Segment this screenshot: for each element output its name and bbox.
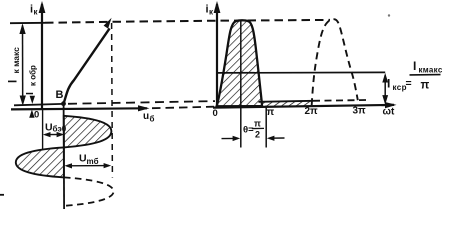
- U_mb dimension double arrow: [64, 163, 111, 169]
- second pulse (dashed): [312, 19, 358, 105]
- svg-text:кмакс: кмакс: [419, 66, 443, 75]
- point B dot: [61, 101, 66, 106]
- strip top edge line: [259, 101, 314, 102]
- svg-text:U: U: [45, 122, 53, 134]
- svg-text:π: π: [254, 119, 261, 129]
- pi tick line: [265, 106, 267, 148]
- svg-text:0: 0: [34, 110, 39, 121]
- formula I_ksr = I_kmaks / pi: [387, 59, 443, 92]
- svg-text:u: u: [143, 111, 149, 122]
- svg-text:=: =: [406, 78, 412, 90]
- svg-text:mб: mб: [87, 157, 99, 166]
- svg-text:I: I: [413, 59, 416, 73]
- top Ik_max level line (dashed, spans both graphs): [45, 20, 330, 23]
- svg-text:к: к: [34, 8, 39, 17]
- label U_be0: [45, 122, 67, 134]
- svg-text:3π: 3π: [353, 106, 367, 117]
- svg-text:I: I: [387, 77, 390, 91]
- sine half-wave 3 (right, dashed): [64, 177, 114, 205]
- Ik_max dimension arrow: [19, 23, 26, 105]
- vertical dashed line at u = Ubex0+Umb (through char. peak): [111, 23, 114, 178]
- sine half-wave 1 (right, hatched): [64, 116, 112, 148]
- collector current pulse (solid, hatched): [217, 20, 262, 106]
- svg-text:B: B: [56, 89, 64, 101]
- label i_k (right): [206, 4, 215, 17]
- svg-text:I: I: [8, 80, 20, 83]
- theta dimension arrows: [222, 136, 285, 142]
- svg-text:2: 2: [255, 130, 260, 140]
- B level line (I_k obr level), solid left of B: [14, 104, 63, 105]
- sine half-wave 2 (left, hatched): [16, 147, 64, 177]
- right i_k axis: [214, 1, 221, 107]
- svg-text:к: к: [209, 8, 214, 17]
- svg-text:2π: 2π: [305, 106, 319, 117]
- svg-text:I: I: [24, 92, 36, 95]
- label I_k obr (rotated): [24, 65, 38, 95]
- I_k sr dimension double arrow: [382, 73, 388, 105]
- axis-level dashed link line between graphs: [152, 107, 214, 109]
- omega-t axis: [213, 102, 397, 108]
- vertical line u=0 below axis: [42, 110, 44, 151]
- label i_k (left): [30, 4, 39, 17]
- label U_mb: [79, 153, 99, 167]
- svg-text:к макс: к макс: [11, 47, 21, 74]
- svg-text:к обр: к обр: [29, 65, 38, 86]
- B level line dashed to right graph: [68, 101, 215, 104]
- svg-text:π: π: [421, 80, 430, 92]
- strip level dashed under 2nd pulse: [313, 99, 368, 102]
- label I_k maks (rotated): [8, 47, 22, 83]
- U_be0 dimension double arrow: [43, 132, 64, 137]
- svg-text:б: б: [150, 115, 155, 124]
- svg-text:π: π: [267, 107, 275, 118]
- stray mark left edge: [0, 194, 4, 196]
- svg-text:0: 0: [213, 108, 218, 119]
- I_k sr average level line: [217, 71, 385, 74]
- svg-text:U: U: [79, 153, 87, 165]
- I_k obr dimension arrows: [29, 96, 35, 118]
- top Ik_max level line (solid left part): [10, 22, 45, 24]
- label u_b: [143, 111, 155, 124]
- pi/2 tick line through pulse peak: [240, 22, 242, 148]
- svg-text:ωt: ωt: [383, 107, 395, 118]
- svg-text:θ=: θ=: [243, 125, 254, 136]
- u_b axis: [11, 105, 150, 111]
- speck top right: [388, 14, 390, 16]
- sine center line (u=Ube0, time axis downward): [63, 104, 66, 209]
- transfer characteristic curve: [64, 18, 112, 104]
- label theta = pi/2: [243, 119, 264, 140]
- left i_k axis: [39, 1, 46, 110]
- I_k obr strip (hatched) between pi and 2pi: [262, 101, 312, 106]
